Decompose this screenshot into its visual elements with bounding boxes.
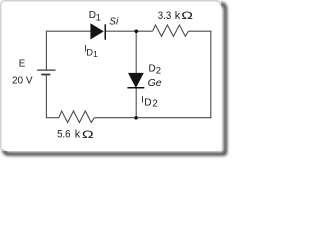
diode D2 triangle xyxy=(129,73,144,87)
wire top-right horizontal (3.3k resistor to right corner) xyxy=(188,30,211,32)
wire left vertical upper (top wire down to E top plate) xyxy=(45,31,47,70)
diode D1 cathode bar xyxy=(105,24,107,39)
battery E short plate xyxy=(41,74,50,76)
wire right vertical xyxy=(210,31,212,119)
diode D2 cathode bar xyxy=(127,87,144,89)
svg-text:k: k xyxy=(175,10,181,22)
svg-text:Ω: Ω xyxy=(181,10,193,22)
junction node B dot (bottom) xyxy=(134,116,138,120)
wire top-middle horizontal (D1 cathode to 3.3k resistor) xyxy=(106,30,153,32)
svg-text:E: E xyxy=(19,59,26,70)
svg-text:3.3: 3.3 xyxy=(158,10,171,22)
resistor 5.6k zigzag xyxy=(59,111,95,123)
wire bottom-right horizontal (right corner to 5.6k resistor) xyxy=(94,117,211,119)
junction node A dot (top) xyxy=(135,29,139,33)
svg-text:1: 1 xyxy=(93,49,98,59)
svg-text:Ω: Ω xyxy=(82,129,94,141)
battery E long plate xyxy=(37,69,55,71)
svg-text:Si: Si xyxy=(109,16,119,27)
svg-text:D: D xyxy=(149,64,156,75)
svg-text:1: 1 xyxy=(96,13,101,23)
wire left vertical lower (E bottom plate down to bottom wire) xyxy=(45,76,47,119)
svg-text:5.6: 5.6 xyxy=(57,128,70,140)
svg-text:k: k xyxy=(75,129,81,141)
wire bottom-left horizontal (5.6k resistor to left corner) xyxy=(46,117,59,119)
light gray border on top/left of card xyxy=(1,1,221,151)
svg-text:2: 2 xyxy=(152,99,157,110)
svg-text:D: D xyxy=(144,98,151,109)
white card xyxy=(0,0,221,151)
wire D2 branch upper (junction A down to D2 anode) xyxy=(135,31,137,73)
resistor 3.3k zigzag xyxy=(153,25,189,36)
svg-text:2: 2 xyxy=(156,65,161,76)
diode D1 triangle xyxy=(91,24,104,39)
wire D2 branch lower (D2 cathode down to junction B) xyxy=(135,89,137,118)
drop shadow (right/bottom blurred dark ring) xyxy=(4,4,226,154)
svg-text:Ge: Ge xyxy=(148,77,162,89)
svg-text:20 V: 20 V xyxy=(12,76,33,87)
wire top-left horizontal (E top to D1 anode) xyxy=(46,30,90,32)
